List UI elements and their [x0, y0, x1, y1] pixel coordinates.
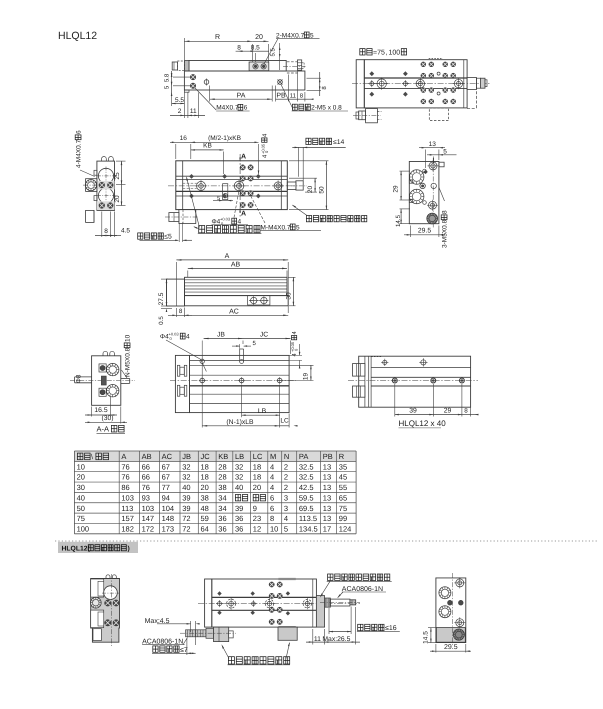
view6 left rod [75, 376, 92, 378]
svg-text:50: 50 [318, 186, 325, 194]
bview-main circles [227, 599, 236, 608]
svg-text:LC: LC [280, 418, 289, 425]
view6 bore upper [107, 363, 119, 375]
svg-text:JC: JC [260, 332, 268, 339]
svg-text:76: 76 [121, 462, 129, 471]
view6 slot upper [99, 364, 106, 372]
label rear adjuster bottom [328, 574, 333, 581]
view6 dim (30) [120, 407, 122, 424]
svg-text:18: 18 [253, 473, 261, 482]
label vent 2-M5x0.8 [292, 104, 297, 110]
bview-left centerline [110, 574, 112, 646]
bview-left cutout mid [91, 610, 104, 628]
view2 foot hidden dashes [377, 110, 381, 112]
view4 dim 4 tol rotated [261, 133, 270, 158]
svg-text:10: 10 [270, 524, 278, 533]
svg-text:72: 72 [182, 514, 190, 523]
label front adjuster [199, 226, 205, 233]
view7 rod end upper [177, 365, 179, 376]
svg-text:4: 4 [284, 514, 288, 523]
svg-text:A-A: A-A [97, 425, 110, 434]
svg-text:20: 20 [307, 186, 314, 194]
view1 screw M4 upper [190, 75, 195, 80]
view7 body [190, 355, 290, 412]
svg-text:103: 103 [121, 493, 134, 502]
view8 bolt lower [353, 386, 365, 397]
svg-text:≤5: ≤5 [164, 234, 172, 241]
svg-text:100: 100 [389, 50, 401, 57]
dim 20 right [116, 205, 126, 207]
view8 dim 8 [462, 414, 471, 416]
view6 hatch block [101, 376, 106, 385]
svg-text:A: A [121, 452, 126, 461]
svg-text:173: 173 [162, 524, 175, 533]
svg-text:4: 4 [270, 483, 274, 492]
svg-text:38: 38 [218, 483, 226, 492]
svg-text:14.5: 14.5 [395, 214, 402, 227]
view1 port hole right [261, 64, 266, 69]
svg-text:72: 72 [182, 524, 190, 533]
dim PB [275, 86, 277, 102]
svg-text:29.5: 29.5 [418, 228, 431, 235]
view8 left columns [364, 356, 366, 407]
svg-text:8: 8 [464, 407, 468, 414]
svg-text:8: 8 [237, 45, 241, 52]
bview-main screw cluster [269, 582, 274, 587]
view4r dim 13 [425, 150, 427, 169]
view2 foot [366, 109, 378, 123]
svg-text:34: 34 [218, 493, 226, 502]
svg-text:AB: AB [142, 452, 152, 461]
view4 rail lines [176, 175, 287, 177]
svg-text:13: 13 [323, 504, 331, 513]
bview-right knurl [453, 629, 464, 640]
view2 centerline [352, 82, 490, 84]
dotted separator [55, 540, 597, 542]
svg-text:2: 2 [284, 462, 288, 471]
label rear adjuster [306, 216, 311, 222]
svg-text:4: 4 [270, 473, 274, 482]
svg-text:20: 20 [114, 195, 121, 203]
leader front adjuster [187, 178, 200, 228]
svg-text:KB: KB [203, 143, 212, 150]
view2 cross circle a [370, 82, 374, 86]
svg-text:2: 2 [284, 473, 288, 482]
label phi4 tol depth4 view7 [160, 332, 190, 342]
view3 rod clamp left [86, 179, 97, 192]
view2 guide circle 3 [454, 79, 462, 87]
svg-text:32: 32 [182, 473, 190, 482]
bview-main rod centerline [320, 602, 360, 604]
dim 11 [187, 115, 189, 117]
view8 screws centerline [392, 378, 397, 383]
svg-text:32.5: 32.5 [299, 462, 314, 471]
view6 right rod [121, 378, 130, 380]
view1 slide table rail [189, 61, 286, 72]
svg-text:13: 13 [429, 141, 437, 148]
view7 dim JB [201, 341, 203, 428]
view2 caption stroke=75,100 [360, 49, 365, 55]
svg-text:3-M5X0.8: 3-M5X0.8 [442, 219, 449, 248]
label adj range 7 [153, 646, 158, 652]
dim adj range5 [140, 239, 179, 241]
svg-text:18: 18 [201, 473, 209, 482]
view4 dim KB [223, 152, 225, 175]
svg-text:134.5: 134.5 [299, 524, 318, 533]
svg-text:PB: PB [276, 92, 286, 99]
svg-text:,: , [386, 50, 388, 57]
view8 dim 29 [433, 414, 462, 416]
svg-text:67: 67 [162, 473, 170, 482]
view1 left hatch block [184, 61, 189, 72]
svg-text:3: 3 [284, 493, 288, 502]
svg-text:29: 29 [444, 407, 452, 414]
leader ACA right [338, 592, 343, 598]
leader front adj bottom right [286, 643, 290, 659]
svg-text:42.5: 42.5 [299, 483, 314, 492]
view7 centerline [170, 380, 296, 382]
view4r dim 5 [433, 157, 435, 164]
view6 dim 16.5 [91, 407, 93, 417]
svg-text:67: 67 [162, 462, 170, 471]
view3 hatch band mid [97, 181, 115, 190]
view8 dashed slot top [371, 356, 382, 358]
bview-left cutout upper [91, 579, 104, 597]
view8 body [359, 356, 471, 407]
svg-text:40: 40 [77, 493, 85, 502]
view4r top-right block [439, 162, 444, 167]
svg-text:13: 13 [323, 514, 331, 523]
svg-text:9: 9 [253, 504, 257, 513]
svg-text:100: 100 [77, 524, 90, 533]
svg-text:148: 148 [162, 514, 175, 523]
view4r guide bore upper [410, 170, 424, 184]
bview-left gray end view [91, 579, 120, 643]
svg-text:AC: AC [229, 308, 239, 315]
svg-text:93: 93 [142, 493, 150, 502]
svg-text:30: 30 [285, 292, 292, 300]
view7 body lines [190, 359, 290, 361]
view4 hidden rod left [183, 182, 197, 184]
view4 foot left [179, 210, 196, 224]
svg-text:32: 32 [235, 462, 243, 471]
svg-text:HLQL12 x 40: HLQL12 x 40 [399, 419, 447, 428]
view7 dim (N-1)xLB [202, 425, 280, 427]
view5 dim AC [185, 314, 289, 316]
leader vent [281, 85, 293, 110]
svg-text:HLQL12(: HLQL12( [62, 546, 91, 553]
svg-text:≤16: ≤16 [385, 625, 397, 632]
svg-text:16: 16 [180, 135, 188, 142]
svg-text:36: 36 [235, 524, 243, 533]
svg-text:66: 66 [142, 462, 150, 471]
view1 left bolt [172, 62, 177, 70]
view2 tiny circles [437, 72, 440, 75]
svg-text:14.5: 14.5 [422, 631, 429, 644]
svg-text:11: 11 [290, 92, 297, 99]
svg-text:20: 20 [253, 483, 261, 492]
svg-text:0.5: 0.5 [158, 316, 165, 325]
svg-text:75: 75 [77, 514, 85, 523]
dim R [183, 38, 185, 60]
svg-text:5.8: 5.8 [163, 73, 170, 82]
svg-text:69.5: 69.5 [299, 504, 314, 513]
dim max45 [187, 623, 191, 625]
svg-text:39: 39 [182, 504, 190, 513]
bview-main left buffer centerline [180, 632, 236, 634]
bview-main band [212, 596, 317, 598]
svg-text:48: 48 [201, 504, 209, 513]
svg-text:99: 99 [339, 514, 347, 523]
svg-text:5.5: 5.5 [175, 97, 184, 104]
label phi4 depth4 [212, 217, 242, 227]
svg-text:23: 23 [253, 514, 261, 523]
svg-text:76: 76 [142, 483, 150, 492]
view6 top bumps [103, 351, 108, 355]
leader rear adjuster [293, 205, 308, 215]
view3 sensor slot lower [94, 196, 97, 201]
view8 dim 39 [395, 414, 434, 416]
svg-text:M: M [270, 452, 276, 461]
bview-main left plate [205, 579, 212, 627]
dim adj16 [329, 631, 351, 633]
svg-text:5.5: 5.5 [270, 47, 277, 56]
svg-text:76: 76 [121, 473, 129, 482]
bview-main gray stopper block [316, 596, 324, 628]
view2 foot centerline [353, 114, 381, 116]
svg-text:13: 13 [323, 483, 331, 492]
view4 circle mid dowel [234, 181, 244, 191]
svg-text:20: 20 [255, 34, 263, 41]
svg-text:38: 38 [201, 493, 209, 502]
view7 left cap [175, 355, 189, 412]
svg-text:Φ8: Φ8 [76, 374, 83, 383]
svg-text:10: 10 [125, 334, 132, 342]
svg-text:ACA0806-1N: ACA0806-1N [142, 638, 183, 645]
leader front adjuster short [194, 227, 200, 229]
dim 20 top [268, 44, 270, 62]
svg-text:PB: PB [323, 452, 333, 461]
view7 dim 4 rotated right [290, 331, 299, 357]
svg-text:8: 8 [270, 514, 274, 523]
svg-text:50: 50 [77, 504, 85, 513]
view4 dim 5 small [213, 200, 233, 202]
bview-main body [212, 579, 317, 627]
svg-text:27.5: 27.5 [158, 292, 165, 305]
svg-text:17: 17 [323, 524, 331, 533]
svg-text:LB: LB [258, 408, 267, 415]
svg-text:4: 4 [270, 462, 274, 471]
svg-text:4.5: 4.5 [121, 228, 130, 235]
svg-text:3: 3 [284, 504, 288, 513]
svg-text:113: 113 [121, 504, 133, 513]
svg-text:2: 2 [284, 483, 288, 492]
dim 4.5 bottom [114, 212, 116, 238]
svg-text:172: 172 [142, 524, 155, 533]
view1 rod tip dashed [302, 62, 304, 64]
view4 adj range 14 [306, 138, 311, 144]
view7 screws [200, 378, 205, 383]
view4r mid circles [420, 183, 425, 188]
view4 screw cluster [240, 165, 245, 170]
view4r left notches [409, 180, 412, 183]
view7 dim LC [288, 414, 290, 428]
svg-text:LB: LB [235, 452, 244, 461]
svg-text:28: 28 [218, 473, 226, 482]
svg-text:(M/2-1)xKB: (M/2-1)xKB [208, 135, 241, 142]
view3 label 4-M4X0.7 depth6 vertical [75, 130, 82, 168]
view2 guide circle 2 [416, 79, 424, 87]
svg-text:6: 6 [244, 105, 248, 112]
view4 dim 50 right [289, 160, 329, 162]
label adj range 5 [138, 233, 143, 239]
bview-right centerline [452, 573, 454, 646]
svg-text:104: 104 [162, 504, 175, 513]
view1 port hole left [253, 64, 258, 69]
svg-text:5: 5 [296, 224, 300, 231]
view4 left plate line [182, 161, 184, 210]
svg-text:103: 103 [142, 504, 155, 513]
view4r small circles near gears [423, 169, 427, 173]
dim 8 top [236, 50, 256, 52]
svg-text:(N-1)xLB: (N-1)xLB [226, 419, 254, 426]
bview-main left buffer ACA [186, 630, 206, 637]
svg-text:94: 94 [162, 493, 170, 502]
view5 dowel block [248, 296, 270, 305]
svg-text:59.5: 59.5 [299, 493, 314, 502]
svg-text:PA: PA [299, 452, 308, 461]
svg-text:40: 40 [235, 483, 243, 492]
bview-left screws [105, 600, 111, 606]
svg-text:4: 4 [238, 219, 242, 226]
view4r dim 14.5 [400, 208, 411, 210]
svg-text:4-M4X0.7: 4-M4X0.7 [76, 139, 83, 168]
bview-left top bumps [106, 575, 110, 579]
view2 main body [364, 60, 467, 108]
svg-text:34: 34 [218, 504, 226, 513]
svg-text:36: 36 [235, 514, 243, 523]
svg-text:64: 64 [201, 524, 209, 533]
svg-text:16.5: 16.5 [94, 407, 107, 414]
svg-text:25: 25 [114, 172, 121, 180]
svg-text:JB: JB [182, 452, 191, 461]
svg-text:29.5: 29.5 [444, 644, 458, 651]
view5 dim 8 bottom [175, 308, 177, 317]
dim PA [209, 86, 211, 102]
svg-text:5: 5 [284, 524, 288, 533]
svg-text:182: 182 [121, 524, 134, 533]
svg-text:32: 32 [182, 462, 190, 471]
view3 sensor slot upper [94, 170, 97, 175]
view2 dashed box bottom [429, 108, 448, 121]
view2 sensor slot dashed top [429, 57, 443, 59]
table stroke data [74, 451, 356, 461]
svg-text:R: R [339, 452, 345, 461]
view3 foot [86, 210, 94, 222]
view5 rail ribbed [185, 277, 288, 295]
view5 dim 27.5 [161, 278, 168, 280]
svg-text:28: 28 [218, 462, 226, 471]
svg-text:39: 39 [409, 407, 417, 414]
svg-text:29: 29 [393, 185, 400, 193]
svg-text:JC: JC [201, 452, 211, 461]
view5 dim AB [187, 271, 189, 278]
leader front adj bottom left [222, 646, 229, 659]
view1 rod nut [298, 60, 302, 70]
view5 dim A [175, 262, 177, 306]
view1 body [184, 71, 305, 90]
svg-text:40: 40 [182, 483, 190, 492]
view7 dowel hole [200, 359, 204, 363]
svg-text:M4X0.7: M4X0.7 [216, 105, 239, 112]
svg-text:36: 36 [218, 514, 226, 523]
view6 slot lower [99, 388, 106, 396]
bview-left foot window [93, 629, 101, 641]
view2 diamonds [369, 71, 374, 76]
view7 dim 5 slot [232, 345, 240, 347]
view4 cushion slot [223, 184, 228, 200]
view4r guide bore lower [410, 189, 424, 203]
svg-text:LC: LC [253, 452, 263, 461]
view4 rear stopper screw [287, 182, 296, 190]
view6 leader [122, 370, 128, 378]
view3 leader [80, 170, 95, 177]
svg-text:20: 20 [77, 473, 85, 482]
view4 dim 16 [175, 144, 177, 159]
svg-text:13: 13 [323, 473, 331, 482]
svg-text:32.5: 32.5 [299, 473, 314, 482]
svg-text:8: 8 [104, 228, 108, 235]
svg-text:KB: KB [218, 452, 228, 461]
svg-text:\: \ [91, 453, 93, 461]
svg-text:N: N [284, 452, 289, 461]
svg-text:5: 5 [443, 148, 447, 155]
svg-text:124: 124 [339, 524, 352, 533]
view1 vent hole [278, 80, 283, 85]
svg-text:5: 5 [310, 32, 314, 39]
dim 14.5 [428, 627, 437, 629]
view4 section line A [239, 154, 241, 217]
view1 bottom foot [184, 90, 189, 92]
view4 circle left [197, 181, 206, 190]
label front adjuster bottom [228, 657, 234, 664]
view3 top bumps [101, 159, 103, 161]
bview-main centerline [198, 603, 360, 605]
view4r leader 3-M5 [439, 187, 445, 201]
bview-right end view [436, 578, 466, 643]
svg-text:A: A [241, 154, 246, 161]
svg-text:77: 77 [162, 483, 170, 492]
svg-text:12: 12 [253, 524, 261, 533]
view8 lines [371, 366, 471, 368]
bview-left gear [90, 597, 101, 608]
svg-text:10: 10 [77, 462, 85, 471]
view2 screw grid [421, 62, 426, 67]
svg-text:=75: =75 [373, 50, 385, 57]
svg-text:147: 147 [142, 514, 155, 523]
svg-text:13: 13 [323, 493, 331, 502]
svg-text:A: A [241, 211, 246, 218]
svg-text:): ) [128, 546, 130, 553]
view3 screws bottom [99, 203, 104, 208]
dim 29.5 [435, 644, 437, 653]
svg-text:A: A [225, 253, 230, 260]
view4 right cap line [280, 161, 282, 210]
view4 body [176, 161, 287, 210]
bview-main buffer rod right [325, 598, 331, 607]
bview-main diamonds [217, 591, 221, 595]
svg-text:30: 30 [77, 483, 85, 492]
